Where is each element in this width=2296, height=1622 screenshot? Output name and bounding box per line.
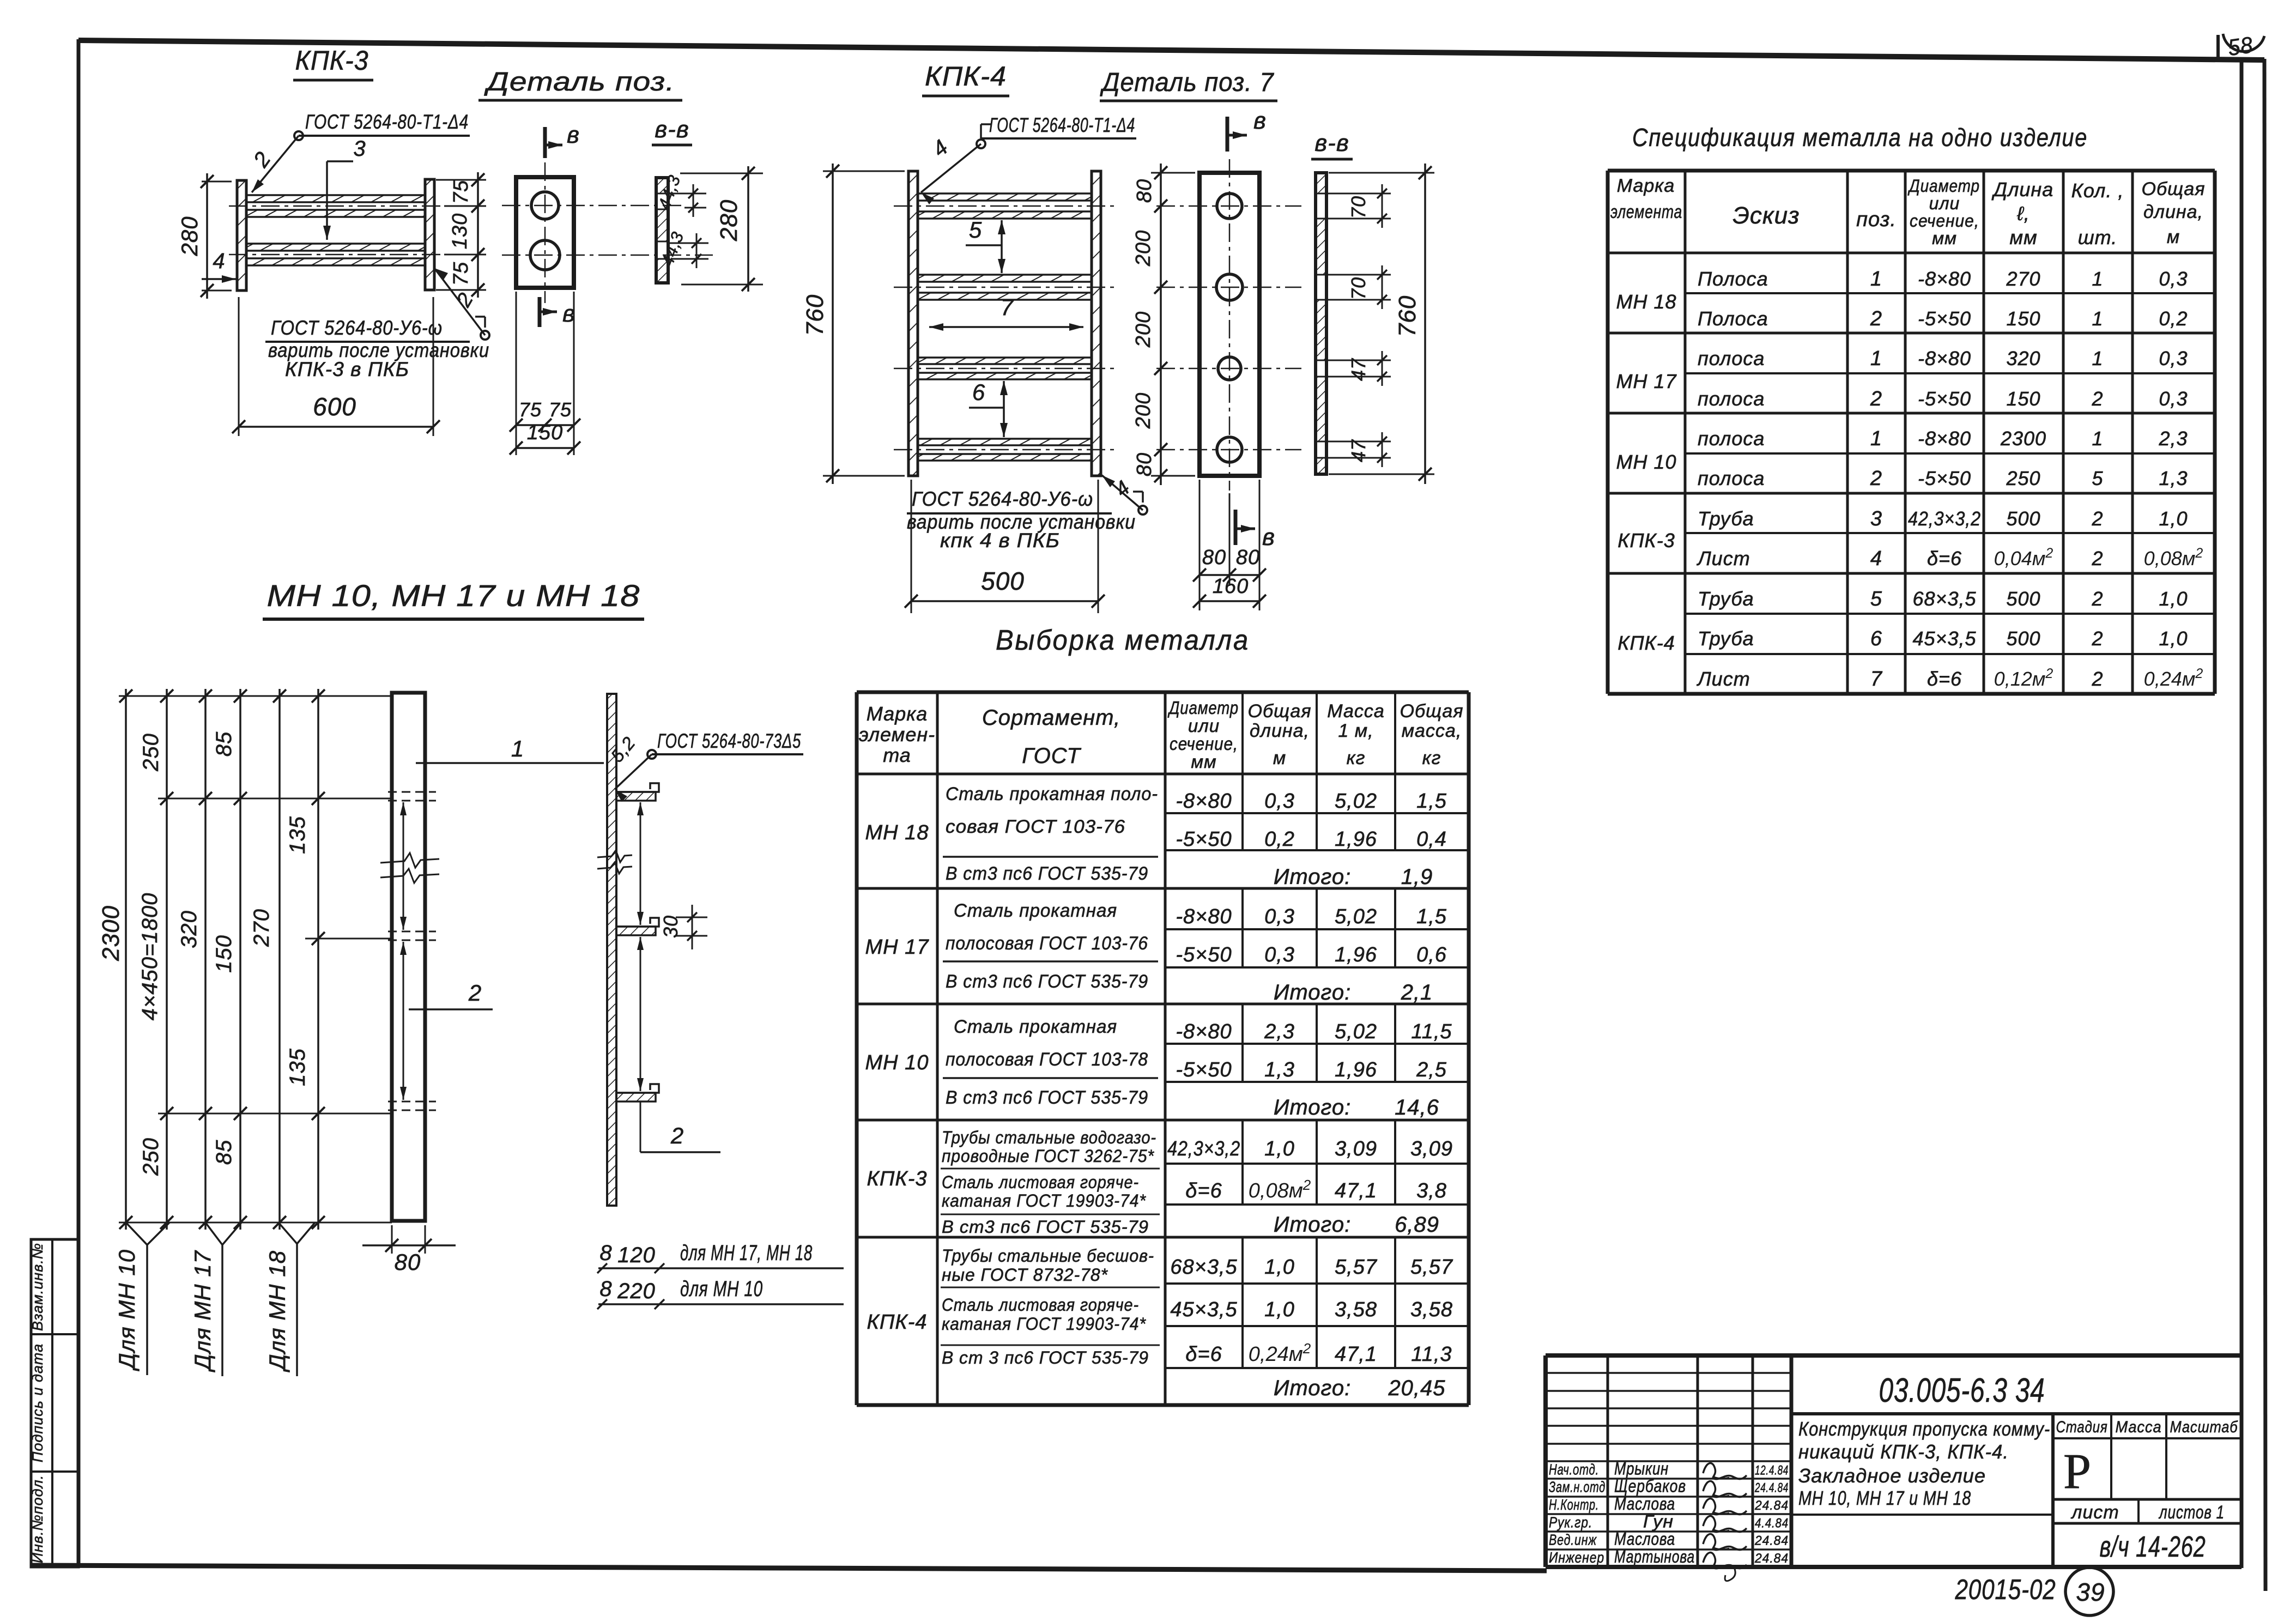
svg-text:Взам.инв.№: Взам.инв.№ — [29, 1243, 46, 1331]
signature table columns — [1607, 1355, 1609, 1567]
svg-text:Сталь прокатная: Сталь прокатная — [954, 900, 1117, 921]
svg-text:Эскиз: Эскиз — [1732, 202, 1800, 229]
svg-text:500: 500 — [981, 567, 1025, 595]
svg-text:никаций КПК-3, КПК-4.: никаций КПК-3, КПК-4. — [1798, 1441, 2009, 1463]
svg-text:200: 200 — [1132, 311, 1155, 348]
svg-text:1,5: 1,5 — [1416, 790, 1447, 813]
svg-text:75: 75 — [519, 398, 542, 421]
svg-text:Труба: Труба — [1698, 627, 1754, 650]
svg-text:70: 70 — [1347, 196, 1370, 219]
svg-text:3,58: 3,58 — [1410, 1298, 1453, 1321]
svg-text:500: 500 — [2006, 507, 2040, 530]
svg-text:80: 80 — [395, 1249, 421, 1275]
svg-text:3,58: 3,58 — [1335, 1298, 1377, 1321]
svg-text:ГОСТ 5264-80-Т1-Δ4: ГОСТ 5264-80-Т1-Δ4 — [989, 114, 1135, 136]
svg-text:Инженер: Инженер — [1549, 1549, 1604, 1566]
svg-text:320: 320 — [2006, 347, 2040, 370]
svg-text:Итого:: Итого: — [1274, 865, 1351, 889]
svg-text:МН 18: МН 18 — [865, 821, 929, 844]
svg-text:Деталь поз. 7: Деталь поз. 7 — [1100, 68, 1275, 97]
svg-text:45×3,5: 45×3,5 — [1170, 1298, 1237, 1321]
dimension 47 (gap3) — [1328, 360, 1391, 361]
svg-text:полосовая ГОСТ 103-76: полосовая ГОСТ 103-76 — [946, 933, 1148, 954]
svg-text:Конструкция пропуска комму-: Конструкция пропуска комму- — [1798, 1418, 2050, 1440]
svg-text:500: 500 — [2006, 588, 2040, 610]
svg-text:или: или — [1188, 716, 1220, 736]
svg-text:ные ГОСТ 8732-78*: ные ГОСТ 8732-78* — [942, 1265, 1108, 1285]
svg-text:сечение,: сечение, — [1170, 734, 1238, 754]
svg-text:80: 80 — [1133, 452, 1156, 476]
hole 2 of poz.7 — [1216, 274, 1243, 300]
poz.7 hole centerlines — [1156, 205, 1301, 207]
svg-text:2: 2 — [2091, 507, 2103, 530]
hole 4 of poz.7 — [1217, 437, 1242, 462]
dimension 760 (left of KPK-4) — [823, 171, 905, 172]
svg-text:Полоса: Полоса — [1698, 307, 1768, 330]
svg-text:лист: лист — [2070, 1502, 2119, 1523]
svg-text:47: 47 — [1347, 439, 1370, 462]
svg-text:0,3: 0,3 — [1264, 905, 1295, 928]
svg-text:47,1: 47,1 — [1335, 1343, 1377, 1366]
svg-text:8: 8 — [599, 1241, 612, 1265]
dimension 30 (cleat 2) — [676, 917, 707, 918]
svg-text:7: 7 — [1001, 294, 1014, 320]
svg-text:2: 2 — [2091, 627, 2103, 650]
svg-text:δ=6: δ=6 — [1927, 668, 1962, 690]
svg-text:Мрыкин: Мрыкин — [1614, 1458, 1669, 1478]
svg-text:1,96: 1,96 — [1335, 828, 1377, 851]
svg-text:Сталь листовая горяче-: Сталь листовая горяче- — [942, 1295, 1139, 1315]
svg-text:Длина: Длина — [1991, 178, 2054, 201]
svg-text:кг: кг — [1422, 748, 1441, 768]
KPK-4 tube poz.5 (2nd) — [918, 275, 1092, 282]
svg-text:0,6: 0,6 — [1416, 943, 1447, 966]
svg-text:2,3: 2,3 — [2158, 427, 2188, 450]
svg-text:Маслова: Маслова — [1614, 1529, 1675, 1549]
svg-text:270: 270 — [250, 909, 274, 947]
svg-text:полосовая ГОСТ 103-78: полосовая ГОСТ 103-78 — [946, 1049, 1148, 1070]
svg-text:39: 39 — [2076, 1578, 2105, 1606]
svg-text:0,3: 0,3 — [1264, 790, 1295, 813]
dimension 80 80 (below poz.7) — [1199, 480, 1201, 610]
svg-text:Труба: Труба — [1698, 588, 1754, 610]
svg-text:Сталь прокатная поло-: Сталь прокатная поло- — [946, 784, 1158, 804]
KPK-3 right plate poz.4 — [425, 179, 434, 290]
svg-text:5: 5 — [1870, 588, 1882, 610]
svg-text:0,3: 0,3 — [2159, 388, 2188, 410]
svg-text:1,96: 1,96 — [1335, 943, 1377, 966]
svg-text:мм: мм — [2009, 226, 2037, 249]
svg-text:мм: мм — [1191, 752, 1216, 772]
svg-text:Стадия: Стадия — [2056, 1418, 2108, 1436]
svg-text:3,09: 3,09 — [1335, 1137, 1377, 1160]
KPK-3 tube poz.3 (top) — [246, 195, 425, 202]
svg-text:8: 8 — [599, 1277, 612, 1301]
svg-text:-5×50: -5×50 — [1918, 388, 1971, 410]
svg-text:75: 75 — [549, 398, 572, 421]
hole centerline 2 — [502, 255, 713, 256]
svg-text:150: 150 — [2006, 307, 2040, 330]
svg-text:В ст 3 пс6 ГОСТ 535-79: В ст 3 пс6 ГОСТ 535-79 — [942, 1348, 1149, 1367]
svg-text:Подпись и дата: Подпись и дата — [29, 1343, 46, 1462]
svg-text:20,45: 20,45 — [1388, 1376, 1445, 1400]
hole 1 of poz.7 — [1217, 193, 1242, 219]
svg-text:Спецификация металла на одн: Спецификация металла на одно изделие — [1632, 123, 2088, 152]
svg-text:Итого:: Итого: — [1274, 1376, 1351, 1400]
svg-text:600: 600 — [313, 392, 356, 421]
KPK-3 tube poz.3 (bottom) — [246, 244, 425, 251]
svg-text:5,57: 5,57 — [1410, 1256, 1453, 1279]
dimensions 75/130/75 (right of KPK-3) — [436, 179, 486, 181]
KPK-4 tube poz.6 (3rd) — [918, 358, 1092, 364]
cleat spacing arrows (edge view) — [640, 802, 641, 925]
svg-text:4: 4 — [213, 249, 225, 273]
svg-text:Вед.инж: Вед.инж — [1549, 1532, 1597, 1548]
svg-text:Лист: Лист — [1697, 547, 1750, 570]
svg-text:1: 1 — [511, 736, 524, 761]
spec table grid — [1608, 169, 2215, 173]
svg-text:КПК-4: КПК-4 — [925, 61, 1007, 92]
svg-text:КПК-3: КПК-3 — [1618, 529, 1675, 552]
svg-text:0,4: 0,4 — [1416, 828, 1447, 851]
svg-text:полоса: полоса — [1698, 427, 1765, 450]
hole centerline 1 — [502, 205, 686, 207]
svg-text:130: 130 — [449, 213, 471, 249]
svg-text:1,96: 1,96 — [1335, 1058, 1377, 1081]
svg-text:для МН 17, МН 18: для МН 17, МН 18 — [680, 1241, 813, 1265]
svg-text:3,8: 3,8 — [1416, 1179, 1447, 1202]
svg-text:длина,: длина, — [1250, 721, 1310, 741]
funnel bracket dlya MN 10 — [126, 1222, 147, 1245]
KPK-4 left plate poz.7 — [908, 171, 918, 476]
v-v section strip — [656, 178, 668, 193]
svg-text:47,1: 47,1 — [1335, 1179, 1377, 1202]
svg-text:поз.: поз. — [1856, 208, 1897, 231]
svg-text:68×3,5: 68×3,5 — [1170, 1256, 1237, 1279]
svg-text:Трубы стальные бесшов-: Трубы стальные бесшов- — [942, 1246, 1154, 1266]
svg-text:Итого:: Итого: — [1274, 1213, 1351, 1237]
svg-text:85: 85 — [212, 1140, 236, 1165]
svg-text:Н.Контр.: Н.Контр. — [1549, 1496, 1599, 1513]
svg-text:δ=6: δ=6 — [1185, 1343, 1222, 1366]
funnel bracket dlya MN 17 — [205, 1222, 222, 1245]
MN strip front view — [392, 693, 425, 1221]
svg-text:Закладное изделие: Закладное изделие — [1798, 1464, 1986, 1487]
label 2 leader (front view) — [409, 1008, 493, 1010]
svg-text:совая ГОСТ 103-76: совая ГОСТ 103-76 — [946, 816, 1125, 837]
svg-text:280: 280 — [716, 199, 742, 241]
svg-text:Нач.отд.: Нач.отд. — [1549, 1461, 1599, 1478]
svg-text:-5×50: -5×50 — [1176, 943, 1232, 966]
svg-text:масса,: масса, — [1402, 721, 1462, 741]
svg-text:Для МН 10: Для МН 10 — [114, 1249, 140, 1371]
svg-text:270: 270 — [2006, 268, 2040, 290]
svg-text:6: 6 — [1870, 627, 1882, 650]
dimension 160 (below poz.7) — [1200, 600, 1259, 602]
svg-text:42,3×3,2: 42,3×3,2 — [1167, 1137, 1240, 1160]
svg-text:МН 17: МН 17 — [865, 936, 930, 959]
svg-text:70: 70 — [1347, 277, 1370, 300]
internal spacing arrows — [403, 802, 404, 930]
svg-text:Р: Р — [2063, 1443, 2092, 1499]
signature squiggles — [1703, 1463, 1747, 1479]
svg-text:80: 80 — [1133, 179, 1156, 203]
svg-text:80: 80 — [1202, 546, 1226, 569]
svg-text:КПК-4: КПК-4 — [1618, 632, 1675, 654]
svg-text:В ст3 пс6 ГОСТ 535-79: В ст3 пс6 ГОСТ 535-79 — [946, 863, 1148, 884]
svg-text:кг: кг — [1347, 748, 1366, 768]
svg-text:-5×50: -5×50 — [1176, 1058, 1232, 1081]
svg-text:1,0: 1,0 — [1264, 1256, 1295, 1279]
svg-text:1,0: 1,0 — [2159, 588, 2188, 610]
svg-text:0,04м2: 0,04м2 — [1994, 546, 2053, 570]
dimension 44,3 (bottom) — [669, 243, 708, 244]
svg-text:760: 760 — [802, 294, 828, 336]
svg-text:1: 1 — [2092, 307, 2103, 330]
svg-text:2: 2 — [2091, 668, 2103, 690]
svg-text:в: в — [567, 122, 580, 148]
svg-text:1,0: 1,0 — [2159, 627, 2188, 650]
svg-text:-8×80: -8×80 — [1918, 427, 1971, 450]
svg-text:-8×80: -8×80 — [1176, 790, 1232, 813]
dimension 75 75 (below plate) — [516, 292, 517, 455]
KPK-3 left plate poz.4 — [237, 180, 246, 290]
svg-text:2: 2 — [468, 980, 482, 1006]
svg-text:85: 85 — [212, 731, 236, 757]
svg-text:Зам.н.отд: Зам.н.отд — [1549, 1479, 1606, 1496]
svg-text:1: 1 — [1870, 268, 1882, 290]
svg-text:ГОСТ 5264-80-У6-ω: ГОСТ 5264-80-У6-ω — [271, 317, 443, 339]
svg-text:24.4.84: 24.4.84 — [1754, 1481, 1789, 1496]
svg-text:220: 220 — [617, 1279, 656, 1303]
svg-text:2,1: 2,1 — [1401, 981, 1433, 1004]
svg-text:Инв.№подл.: Инв.№подл. — [29, 1475, 46, 1564]
svg-text:68×3,5: 68×3,5 — [1912, 588, 1976, 610]
svg-text:2: 2 — [670, 1123, 684, 1148]
svg-text:3: 3 — [353, 137, 366, 161]
dimension 280 (left of KPK-3) — [202, 181, 232, 183]
svg-text:250: 250 — [2006, 467, 2040, 489]
svg-text:5,02: 5,02 — [1335, 1020, 1377, 1043]
svg-text:-8×80: -8×80 — [1918, 347, 1971, 370]
svg-text:элемен-: элемен- — [859, 723, 935, 746]
svg-text:1: 1 — [1870, 427, 1882, 450]
KPK-4 tube poz.6 (4th) — [918, 439, 1092, 445]
label 1 leader (connects both views) — [416, 762, 604, 764]
svg-text:Марка: Марка — [1617, 175, 1675, 196]
svg-text:250: 250 — [139, 1137, 163, 1176]
svg-text:12.4.84: 12.4.84 — [1755, 1463, 1789, 1478]
svg-text:47: 47 — [1347, 358, 1370, 381]
svg-text:Сталь листовая горяче-: Сталь листовая горяче- — [942, 1172, 1139, 1192]
svg-text:2: 2 — [1870, 307, 1882, 330]
svg-text:135: 135 — [286, 1048, 310, 1086]
svg-text:500: 500 — [2006, 627, 2040, 650]
svg-text:4: 4 — [1870, 547, 1882, 570]
svg-text:Трубы стальные водогазо-: Трубы стальные водогазо- — [942, 1128, 1156, 1147]
svg-text:МН 18: МН 18 — [1616, 290, 1676, 313]
svg-text:200: 200 — [1132, 392, 1155, 429]
svg-text:Масса: Масса — [2116, 1418, 2162, 1436]
svg-text:Мартынова: Мартынова — [1614, 1547, 1695, 1566]
dimension 80 (bottom of front strip) — [391, 1225, 393, 1254]
detail plate poz.4 face view — [516, 177, 574, 288]
svg-text:160: 160 — [1213, 575, 1249, 598]
svg-text:135: 135 — [286, 816, 310, 854]
svg-text:1,0: 1,0 — [1264, 1137, 1295, 1160]
svg-text:-8×80: -8×80 — [1176, 905, 1232, 928]
svg-text:Для МН 18: Для МН 18 — [264, 1250, 290, 1372]
svg-text:24.84: 24.84 — [1754, 1534, 1789, 1548]
svg-text:4×450=1800: 4×450=1800 — [138, 893, 162, 1021]
svg-text:2: 2 — [2091, 588, 2103, 610]
svg-text:для МН 10: для МН 10 — [680, 1277, 763, 1301]
svg-text:шт.: шт. — [2078, 226, 2117, 249]
svg-text:полоса: полоса — [1698, 388, 1765, 410]
svg-text:30: 30 — [659, 915, 682, 938]
svg-text:проводные ГОСТ 3262-75*: проводные ГОСТ 3262-75* — [942, 1146, 1155, 1166]
cleat 2 (edge view) — [616, 918, 659, 927]
svg-text:в-в: в-в — [1314, 130, 1349, 156]
signature table rows — [1546, 1372, 1791, 1374]
svg-text:2: 2 — [1870, 388, 1882, 410]
section mark v top (poz.7) — [1226, 117, 1229, 152]
dimension 600 (bottom of KPK-3) — [238, 297, 240, 436]
dimension 280 (v-v) — [680, 173, 763, 174]
svg-text:1,3: 1,3 — [2159, 467, 2188, 489]
svg-text:7: 7 — [1870, 668, 1883, 691]
svg-text:полоса: полоса — [1698, 467, 1765, 489]
svg-text:МН 10: МН 10 — [1616, 451, 1676, 473]
svg-text:1,0: 1,0 — [2159, 507, 2188, 530]
svg-text:В ст3 пс6 ГОСТ 535-79: В ст3 пс6 ГОСТ 535-79 — [942, 1217, 1149, 1237]
svg-text:24.84: 24.84 — [1754, 1551, 1789, 1566]
cleat 3 (edge view) — [616, 1084, 659, 1093]
dimension 70 (gap2) — [1328, 274, 1391, 276]
svg-text:-5×50: -5×50 — [1176, 828, 1232, 851]
svg-text:760: 760 — [1394, 295, 1421, 337]
svg-text:Маслова: Маслова — [1614, 1494, 1675, 1514]
hole 2 — [530, 240, 560, 270]
MN dimension lines — [119, 695, 392, 697]
svg-text:120: 120 — [617, 1243, 656, 1267]
svg-text:1: 1 — [1870, 347, 1882, 370]
svg-text:1,3: 1,3 — [1264, 1058, 1295, 1081]
svg-text:4.4.84: 4.4.84 — [1755, 1516, 1789, 1530]
svg-text:В ст3 пс6 ГОСТ 535-79: В ст3 пс6 ГОСТ 535-79 — [946, 971, 1148, 992]
svg-text:42,3×3,2: 42,3×3,2 — [1908, 507, 1981, 530]
svg-text:11,5: 11,5 — [1411, 1020, 1452, 1043]
hole 1 — [531, 192, 559, 219]
svg-text:Общая: Общая — [1248, 701, 1312, 722]
svg-text:МН 17: МН 17 — [1616, 370, 1677, 392]
svg-text:0,3: 0,3 — [2159, 268, 2188, 290]
funnel bracket dlya MN 18 — [278, 1222, 297, 1244]
section mark v bottom (poz.7) — [1234, 510, 1238, 545]
dimension 47 (gap4) — [1328, 441, 1391, 443]
svg-text:0,08м2: 0,08м2 — [1249, 1177, 1311, 1202]
svg-text:0,12м2: 0,12м2 — [1994, 666, 2053, 690]
label 2 (edge view) — [640, 1101, 641, 1152]
svg-text:Общая: Общая — [2142, 179, 2206, 199]
svg-text:0,2: 0,2 — [2159, 307, 2188, 330]
svg-text:14,6: 14,6 — [1395, 1096, 1439, 1119]
dimensions 80/200/200/200/80 (left of poz.7) — [1151, 172, 1195, 174]
svg-text:80: 80 — [1236, 546, 1260, 569]
svg-text:2: 2 — [2091, 547, 2103, 570]
svg-text:200: 200 — [1132, 230, 1155, 267]
svg-text:2,5: 2,5 — [1416, 1058, 1447, 1081]
svg-text:150: 150 — [2006, 388, 2040, 410]
svg-text:3: 3 — [1870, 507, 1882, 530]
svg-text:150: 150 — [212, 935, 236, 973]
svg-text:Итого:: Итого: — [1274, 981, 1351, 1004]
svg-text:в: в — [1253, 107, 1267, 134]
svg-text:δ=6: δ=6 — [1927, 547, 1962, 570]
svg-text:Кол. ,: Кол. , — [2071, 179, 2124, 202]
svg-text:5,57: 5,57 — [1335, 1256, 1378, 1279]
plate centerline vertical — [544, 162, 546, 303]
svg-text:1: 1 — [2092, 268, 2103, 290]
svg-text:катаная ГОСТ 19903-74*: катаная ГОСТ 19903-74* — [942, 1191, 1147, 1211]
dimension 500 (bottom of KPK-4) — [911, 480, 912, 613]
svg-text:20015-02: 20015-02 — [1955, 1574, 2056, 1606]
svg-text:Сталь прокатная: Сталь прокатная — [954, 1016, 1117, 1037]
svg-text:1,9: 1,9 — [1401, 865, 1433, 889]
svg-text:Гун: Гун — [1643, 1511, 1674, 1531]
svg-text:ГОСТ 5264-80-У6-ω: ГОСТ 5264-80-У6-ω — [912, 488, 1093, 510]
svg-text:Лист: Лист — [1697, 668, 1750, 690]
svg-text:2: 2 — [1870, 467, 1882, 490]
svg-text:Общая: Общая — [1400, 701, 1464, 722]
svg-text:катаная ГОСТ 19903-74*: катаная ГОСТ 19903-74* — [942, 1314, 1147, 1334]
svg-text:0,3: 0,3 — [1264, 943, 1295, 966]
svg-text:5,02: 5,02 — [1335, 905, 1377, 928]
svg-text:ГОСТ 5264-80-Т1-Δ4: ГОСТ 5264-80-Т1-Δ4 — [305, 111, 469, 133]
svg-text:150: 150 — [527, 421, 563, 444]
svg-text:320: 320 — [177, 910, 201, 948]
svg-text:03.005-6.3 34: 03.005-6.3 34 — [1879, 1372, 2045, 1409]
cleat 1 (edge view) — [616, 783, 659, 792]
svg-text:2300: 2300 — [2000, 427, 2046, 450]
svg-text:2,3: 2,3 — [1264, 1020, 1295, 1043]
svg-text:-8×80: -8×80 — [1176, 1020, 1232, 1043]
section mark v (top) — [543, 127, 547, 158]
svg-text:280: 280 — [177, 216, 202, 256]
svg-text:или: или — [1929, 193, 1960, 213]
svg-text:1: 1 — [2092, 427, 2103, 450]
svg-text:1 м,: 1 м, — [1338, 721, 1373, 741]
svg-text:МН 10, МН 17 и МН 18: МН 10, МН 17 и МН 18 — [267, 578, 640, 613]
svg-text:Диаметр: Диаметр — [1167, 698, 1239, 718]
svg-text:0,3: 0,3 — [2159, 347, 2188, 370]
svg-text:м: м — [2167, 227, 2180, 247]
svg-text:полоса: полоса — [1698, 347, 1765, 370]
page number circle 58 (top right) — [2223, 34, 2264, 51]
svg-text:2: 2 — [2091, 388, 2103, 410]
svg-text:Масса: Масса — [1327, 701, 1385, 722]
svg-text:длина,: длина, — [2143, 202, 2203, 222]
v-v strip (KPK-4) — [1316, 173, 1326, 193]
svg-text:1: 1 — [2092, 347, 2103, 370]
svg-text:Итого:: Итого: — [1274, 1096, 1351, 1119]
svg-text:КПК-3 в ПКБ: КПК-3 в ПКБ — [285, 358, 409, 380]
svg-text:КПК-3: КПК-3 — [295, 45, 369, 76]
svg-text:6: 6 — [972, 379, 985, 405]
break marks on front strip — [380, 853, 439, 868]
svg-text:Для МН 17: Для МН 17 — [190, 1250, 215, 1372]
svg-text:0,2: 0,2 — [1264, 828, 1295, 851]
